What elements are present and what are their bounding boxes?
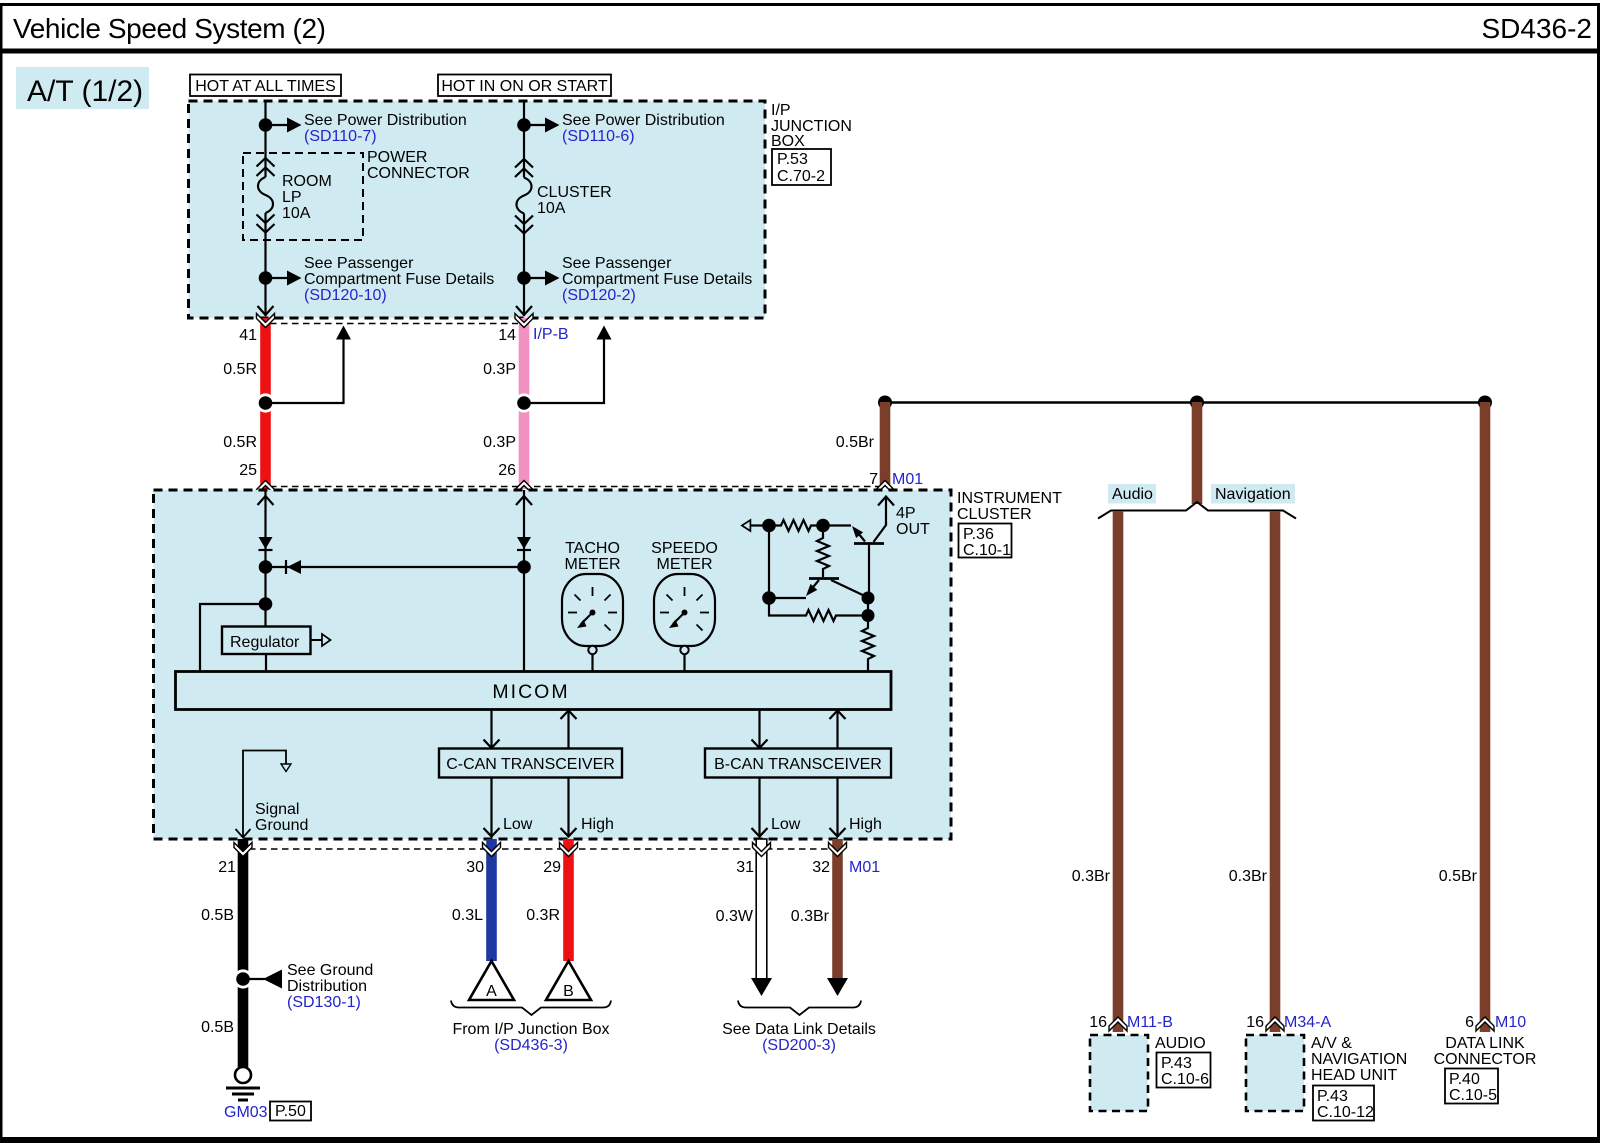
- svg-text:16: 16: [1089, 1014, 1107, 1031]
- svg-text:0.3P: 0.3P: [483, 361, 516, 378]
- svg-text:I/P-B: I/P-B: [533, 326, 569, 343]
- transistor Q1 (PNP): [852, 523, 886, 598]
- wire 0.3P pink, pin 14 to pin 26: [519, 318, 530, 489]
- svg-text:From I/P Junction Box: From I/P Junction Box: [452, 1021, 609, 1038]
- svg-text:(SD120-10): (SD120-10): [304, 287, 387, 304]
- svg-text:METER: METER: [565, 556, 621, 573]
- arrow to See Ground Distribution: [243, 970, 282, 989]
- wire: C-CAN low to pin 30: [484, 777, 500, 837]
- connector pin chevron 30 (down): [483, 843, 501, 857]
- connector pin chevron 7 (up): [876, 481, 894, 495]
- connector dashed line (I/P-B side, top): [270, 323, 518, 325]
- resistor R3 (horizontal) with wire from node D: [769, 598, 868, 621]
- svg-text:P.53: P.53: [777, 151, 808, 168]
- connector pin chevron 14 (down): [515, 314, 533, 328]
- connector pin chevron 31 (down): [753, 843, 771, 857]
- svg-text:P.43: P.43: [1317, 1088, 1348, 1105]
- A/V navigation box (dashed): [1246, 1035, 1304, 1111]
- wire 0.3R red, pin 29: [563, 839, 574, 961]
- svg-text:(SD200-3): (SD200-3): [762, 1037, 836, 1054]
- connector pin chevron 41 (down): [257, 314, 275, 328]
- svg-text:(SD436-3): (SD436-3): [494, 1037, 568, 1054]
- reference box P.50: [270, 1102, 311, 1121]
- arrow to See Power Distribution (right): [524, 118, 560, 133]
- svg-text:0.3R: 0.3R: [526, 907, 560, 924]
- junction dot: [259, 271, 273, 285]
- svg-text:OUT: OUT: [896, 521, 930, 538]
- svg-text:See Passenger: See Passenger: [304, 255, 414, 272]
- svg-text:GM03: GM03: [224, 1104, 268, 1121]
- svg-text:0.5B: 0.5B: [201, 907, 234, 924]
- svg-text:DATA LINK: DATA LINK: [1445, 1035, 1525, 1052]
- svg-text:B: B: [563, 983, 574, 1000]
- svg-text:ROOM: ROOM: [282, 173, 332, 190]
- svg-text:0.3Br: 0.3Br: [1072, 868, 1111, 885]
- svg-text:0.3P: 0.3P: [483, 434, 516, 451]
- arrow to See Passenger Compartment Fuse Details (right): [524, 271, 560, 286]
- wire 0.3L blue, pin 30: [486, 839, 497, 961]
- svg-text:CONNECTOR: CONNECTOR: [1434, 1051, 1537, 1068]
- svg-text:P.40: P.40: [1449, 1071, 1480, 1088]
- triangle connector B: [546, 961, 591, 1000]
- svg-text:(SD110-7): (SD110-7): [304, 128, 377, 145]
- svg-text:HOT AT ALL TIMES: HOT AT ALL TIMES: [195, 78, 336, 95]
- junction dot: [1190, 396, 1204, 410]
- svg-text:25: 25: [239, 462, 257, 479]
- svg-text:16: 16: [1246, 1014, 1264, 1031]
- exit arrow pin 14: [516, 306, 532, 315]
- svg-text:See Passenger: See Passenger: [562, 255, 672, 272]
- connector dashed line (M01 side, cluster top): [270, 486, 880, 488]
- svg-text:Navigation: Navigation: [1215, 486, 1291, 503]
- C-CAN transceiver wiring: [484, 710, 577, 748]
- wire brown stem to harness split: [1192, 402, 1203, 504]
- svg-text:10A: 10A: [537, 200, 566, 217]
- svg-text:CONNECTOR: CONNECTOR: [367, 165, 470, 182]
- connector pin chevron 32 (down): [829, 843, 847, 857]
- connector pin chevron 29 (down): [560, 843, 578, 857]
- ground GM03: [226, 1067, 260, 1100]
- wire: B-CAN high to pin 32: [830, 777, 846, 837]
- svg-text:High: High: [849, 816, 882, 833]
- wire 0.5Br brown to pin 7 M01: [880, 402, 891, 487]
- svg-text:29: 29: [543, 859, 561, 876]
- junction dot: [259, 560, 273, 574]
- junction dot (node A): [762, 519, 776, 533]
- svg-text:10A: 10A: [282, 205, 311, 222]
- triangle connector A: [469, 961, 514, 1000]
- svg-text:A/V &: A/V &: [1311, 1035, 1352, 1052]
- svg-text:Signal: Signal: [255, 801, 299, 818]
- connector pin chevron 16 M34-A (up): [1266, 1017, 1284, 1031]
- arrow to See Power Distribution (left): [266, 118, 302, 133]
- resistor R4 (vertical) to MICOM: [862, 598, 874, 671]
- svg-text:M11-B: M11-B: [1127, 1014, 1173, 1031]
- svg-text:31: 31: [736, 859, 754, 876]
- svg-text:0.3L: 0.3L: [452, 907, 483, 924]
- svg-text:(SD130-1): (SD130-1): [287, 994, 361, 1011]
- svg-text:P.43: P.43: [1161, 1055, 1192, 1072]
- svg-text:(SD120-2): (SD120-2): [562, 287, 636, 304]
- svg-text:Regulator: Regulator: [230, 634, 300, 651]
- svg-text:A: A: [486, 983, 497, 1000]
- I/P junction box (dashed): [189, 101, 766, 318]
- arrowhead down pin 32: [827, 978, 848, 996]
- audio box (dashed): [1090, 1035, 1148, 1111]
- wire 0.3Br brown navigation branch: [1270, 511, 1281, 1032]
- svg-text:26: 26: [498, 462, 516, 479]
- svg-text:Low: Low: [503, 816, 533, 833]
- tacho meter gauge: [562, 574, 623, 671]
- fuse CLUSTER 10A: [515, 159, 533, 234]
- wire: pin 26 branch inside cluster: [523, 490, 525, 671]
- svg-text:7: 7: [869, 471, 878, 488]
- junction dot: [1478, 396, 1492, 410]
- instrument cluster box (dashed): [154, 490, 952, 839]
- C-CAN TRANSCEIVER box: [439, 749, 622, 778]
- wire: 4P OUT to pin 7 with open arrow: [878, 496, 894, 524]
- wire 0.5B black ground wire: [238, 839, 249, 1067]
- wire: branch to MICOM left: [200, 604, 266, 671]
- svg-text:M01: M01: [892, 471, 923, 488]
- regulator box: [222, 627, 311, 655]
- svg-text:P.36: P.36: [963, 526, 994, 543]
- resistor R1 (horizontal): [769, 520, 823, 531]
- connector pin chevron 25 (up): [257, 481, 275, 495]
- junction dot on black wire: [233, 969, 252, 988]
- speedo meter gauge: [654, 574, 715, 671]
- svg-text:0.3Br: 0.3Br: [791, 908, 830, 925]
- svg-text:C.10-1: C.10-1: [963, 542, 1011, 559]
- svg-text:0.5Br: 0.5Br: [836, 434, 875, 451]
- svg-text:Audio: Audio: [1112, 486, 1153, 503]
- open arrow output left: [742, 520, 769, 531]
- reference box P.43 C.10-6: [1157, 1053, 1211, 1089]
- svg-text:4P: 4P: [896, 505, 916, 522]
- svg-text:C.10-6: C.10-6: [1161, 1071, 1209, 1088]
- svg-text:I/P: I/P: [771, 102, 791, 119]
- junction dot (node C): [862, 592, 875, 605]
- wire: hot-in-on-or-start vertical inside junction box: [523, 101, 525, 178]
- svg-text:NAVIGATION: NAVIGATION: [1311, 1051, 1407, 1068]
- junction dot: [517, 271, 531, 285]
- svg-text:Distribution: Distribution: [287, 978, 367, 995]
- wire: cross link with diode D3: [266, 560, 525, 574]
- svg-text:Vehicle Speed System (2): Vehicle Speed System (2): [13, 13, 326, 44]
- svg-text:0.3Br: 0.3Br: [1229, 868, 1268, 885]
- svg-text:0.5R: 0.5R: [223, 361, 257, 378]
- wire jog from red wire with up arrow: [266, 326, 352, 404]
- junction dot: [517, 118, 531, 132]
- B-CAN TRANSCEIVER box: [705, 749, 891, 778]
- signal ground wire: [236, 751, 292, 838]
- arrowhead down pin 31: [751, 978, 772, 996]
- entry arrow pin 26: [516, 496, 532, 505]
- svg-text:See Power Distribution: See Power Distribution: [304, 112, 467, 129]
- svg-text:MICOM: MICOM: [492, 681, 569, 703]
- svg-text:C.10-5: C.10-5: [1449, 1087, 1497, 1104]
- svg-text:30: 30: [466, 859, 484, 876]
- svg-text:M34-A: M34-A: [1284, 1014, 1331, 1031]
- svg-text:P.50: P.50: [275, 1103, 306, 1120]
- svg-text:See Data Link Details: See Data Link Details: [722, 1021, 876, 1038]
- POWER CONNECTOR dashed box: [243, 153, 363, 240]
- svg-text:C-CAN TRANSCEIVER: C-CAN TRANSCEIVER: [446, 756, 615, 773]
- svg-text:0.5B: 0.5B: [201, 1019, 234, 1036]
- wire: regulator to MICOM: [265, 654, 267, 671]
- diode D2: [517, 537, 531, 550]
- svg-text:C.10-12: C.10-12: [1317, 1104, 1374, 1121]
- svg-text:INSTRUMENT: INSTRUMENT: [957, 490, 1062, 507]
- regulator output open arrow: [311, 634, 331, 646]
- connector pin chevron 6 M10 (up): [1476, 1017, 1494, 1031]
- svg-text:HOT IN ON OR START: HOT IN ON OR START: [441, 78, 607, 95]
- svg-text:TACHO: TACHO: [565, 540, 620, 557]
- svg-text:Compartment Fuse Details: Compartment Fuse Details: [562, 271, 752, 288]
- junction dot on pink wire: [514, 393, 533, 412]
- diode D1: [259, 537, 273, 550]
- wire: hot-at-all-times vertical inside junction box: [264, 101, 266, 177]
- reference box P.36 C.10-1: [959, 524, 1012, 560]
- A/T (1/2) label: [16, 67, 149, 109]
- fuse ROOM LP 10A: [257, 158, 275, 233]
- svg-text:32: 32: [812, 859, 830, 876]
- wire 0.3Br brown, pin 32: [832, 839, 843, 979]
- svg-text:See Ground: See Ground: [287, 962, 373, 979]
- wire: pin 25 branch inside cluster: [264, 490, 266, 627]
- svg-text:B-CAN TRANSCEIVER: B-CAN TRANSCEIVER: [714, 756, 882, 773]
- svg-text:0.3W: 0.3W: [716, 908, 754, 925]
- B-CAN transceiver wiring: [752, 710, 846, 748]
- connector pin chevron 16 M11-B (up): [1109, 1017, 1127, 1031]
- svg-text:AUDIO: AUDIO: [1155, 1035, 1206, 1052]
- junction dot on red wire: [256, 393, 275, 412]
- svg-text:See Power Distribution: See Power Distribution: [562, 112, 725, 129]
- transistor Q2 (NPN): [806, 579, 868, 598]
- svg-text:M01: M01: [849, 859, 880, 876]
- svg-text:14: 14: [498, 327, 516, 344]
- wire 0.5Br brown data link branch: [1480, 402, 1491, 1032]
- svg-text:METER: METER: [657, 556, 713, 573]
- svg-text:BOX: BOX: [771, 133, 805, 150]
- wire: B-CAN low to pin 31: [752, 777, 768, 837]
- label Audio: [1108, 484, 1156, 504]
- reference box P.43 C.10-12: [1313, 1086, 1374, 1122]
- junction dot (node B): [816, 519, 830, 533]
- svg-text:A/T (1/2): A/T (1/2): [27, 75, 143, 108]
- svg-text:0.5R: 0.5R: [223, 434, 257, 451]
- svg-text:SD436-2: SD436-2: [1481, 13, 1592, 44]
- svg-text:21: 21: [218, 859, 236, 876]
- junction dot (node E): [862, 609, 875, 622]
- svg-text:M10: M10: [1495, 1014, 1526, 1031]
- svg-text:(SD110-6): (SD110-6): [562, 128, 635, 145]
- svg-text:CLUSTER: CLUSTER: [957, 506, 1032, 523]
- wire: C-CAN high to pin 29: [561, 777, 577, 837]
- resistor R2 (vertical): [817, 526, 829, 578]
- label HOT AT ALL TIMES: [190, 75, 341, 97]
- label HOT IN ON OR START: [438, 75, 611, 97]
- svg-text:High: High: [581, 816, 614, 833]
- svg-text:C.70-2: C.70-2: [777, 168, 825, 185]
- junction dot: [878, 396, 892, 410]
- svg-text:POWER: POWER: [367, 149, 427, 166]
- wire 0.5R red, pin 41 to pin 25: [260, 318, 271, 489]
- junction dot: [517, 560, 531, 574]
- arrow to See Passenger Compartment Fuse Details (left): [266, 271, 302, 286]
- junction dot: [259, 118, 273, 132]
- svg-text:LP: LP: [282, 189, 302, 206]
- wire jog from pink wire with up arrow: [524, 326, 612, 404]
- entry arrow pin 25: [258, 496, 274, 505]
- reference box P.40 C.10-5: [1445, 1069, 1498, 1105]
- junction dot: [259, 597, 273, 611]
- brace From I/P Junction Box: [451, 1001, 611, 1016]
- svg-text:Ground: Ground: [255, 817, 308, 834]
- svg-text:CLUSTER: CLUSTER: [537, 184, 612, 201]
- connector dashed line (M01, cluster bottom): [249, 848, 845, 850]
- brace See Data Link Details: [738, 1001, 861, 1016]
- label Navigation: [1211, 484, 1295, 504]
- svg-text:HEAD UNIT: HEAD UNIT: [1311, 1067, 1397, 1084]
- harness split bracket: [1098, 502, 1296, 519]
- svg-text:Compartment Fuse Details: Compartment Fuse Details: [304, 271, 494, 288]
- reference box P.53 C.70-2: [772, 149, 831, 185]
- junction dot (node D): [762, 591, 776, 605]
- wire: node A to node D: [768, 526, 770, 599]
- wire 0.3W white, pin 31: [756, 839, 767, 979]
- svg-text:6: 6: [1465, 1014, 1474, 1031]
- connector pin chevron 21 (down): [234, 843, 252, 857]
- wire to Q1 emitter: [823, 524, 851, 526]
- MICOM block: [176, 672, 892, 710]
- svg-text:41: 41: [239, 327, 257, 344]
- wire 0.3Br brown audio branch: [1113, 511, 1124, 1032]
- wire: black bus line: [885, 401, 1485, 404]
- wire: emitter Q2 to node D: [769, 597, 806, 599]
- exit arrow pin 41: [258, 306, 274, 315]
- connector pin chevron 26 (up): [515, 481, 533, 495]
- svg-text:SPEEDO: SPEEDO: [651, 540, 718, 557]
- svg-text:0.5Br: 0.5Br: [1439, 868, 1478, 885]
- svg-text:Low: Low: [771, 816, 801, 833]
